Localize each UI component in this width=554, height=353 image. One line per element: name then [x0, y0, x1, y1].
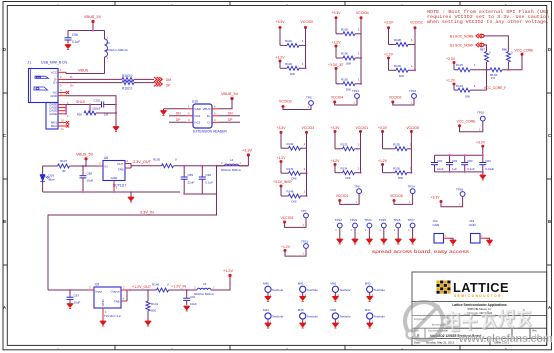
svg-text:Output: Output: [110, 289, 119, 293]
svg-text:VCCIO3: VCCIO3: [281, 216, 294, 220]
svg-text:R133: R133: [341, 142, 348, 146]
title block document row: [414, 330, 540, 338]
svg-text:DP: DP: [228, 118, 232, 122]
svg-text:Testhole: Testhole: [272, 288, 284, 292]
svg-text:TP6: TP6: [306, 96, 312, 100]
ground (JX3): [487, 240, 493, 245]
connector JX3 GND post: [469, 219, 490, 243]
svg-text:DNI: DNI: [465, 95, 470, 99]
svg-text:DM: DM: [166, 78, 171, 82]
svg-text:Testhole: Testhole: [374, 288, 386, 292]
svg-text:D: D: [548, 47, 551, 52]
test point TP14 (VCCIO5): [390, 185, 415, 205]
svg-text:A: A: [3, 305, 6, 310]
svg-text:GND: GND: [195, 107, 201, 111]
svg-text:DN: DN: [176, 111, 181, 115]
pin 3 U5 input stub: [88, 286, 94, 291]
connector J1 USB_MINI_B: [28, 61, 68, 103]
resistor R162 0: [122, 81, 134, 91]
svg-text:22uF: 22uF: [188, 181, 195, 185]
wire R137 to U8: [70, 165, 99, 167]
inductor L5 600ohm 500mA: [194, 282, 215, 296]
wire +1.2V_IN rail: [169, 285, 198, 292]
svg-text:+1.2V: +1.2V: [331, 159, 341, 163]
svg-text:M44: M44: [263, 308, 269, 312]
power flag +3.3V (SPI): [446, 57, 456, 64]
svg-text:Testhole: Testhole: [374, 315, 386, 319]
ground (JX2): [450, 240, 456, 245]
resistor R124 1: [456, 84, 476, 92]
title block company text: [452, 303, 506, 315]
off-page connector SOC_NORB: [450, 34, 484, 39]
svg-text:0.1uF: 0.1uF: [206, 181, 214, 185]
svg-text:VCCIO3: VCCIO3: [302, 126, 315, 130]
svg-text:0.1uF: 0.1uF: [467, 167, 475, 171]
resistor R137 4K: [58, 159, 70, 173]
svg-text:+3.3V: +3.3V: [378, 126, 388, 130]
svg-text:TP23: TP23: [350, 218, 358, 222]
pin 5 stub U10: [212, 111, 219, 116]
svg-text:VCCIO5: VCCIO5: [390, 194, 403, 198]
ground (U8 rail): [128, 197, 134, 202]
svg-text:R102: R102: [285, 39, 292, 43]
title block date row: [414, 341, 510, 345]
svg-text:Testhole: Testhole: [272, 315, 284, 319]
svg-text:TP50: TP50: [456, 188, 464, 192]
wire VBUS net: [66, 69, 105, 74]
wire cap return rail: [183, 193, 216, 195]
wire GND net of J1: [66, 96, 116, 105]
svg-text:U5: U5: [95, 283, 99, 287]
capacitor C83 0.1uF: [461, 155, 475, 172]
title block frame: [412, 272, 547, 346]
node junction VBUS_5V: [92, 29, 94, 31]
svg-text:DNI: DNI: [290, 72, 295, 76]
svg-text:TP11: TP11: [352, 89, 359, 93]
svg-text:R148: R148: [287, 190, 294, 194]
wire OUT-TAB tie: [130, 164, 132, 169]
wire SHLD net: [66, 100, 101, 105]
svg-text:R134: R134: [341, 166, 348, 170]
pin 2 D- stub: [58, 75, 66, 79]
jumper group C1: [384, 21, 423, 78]
svg-text:600ohm 500mA: 600ohm 500mA: [194, 292, 214, 296]
svg-text:+3.3V: +3.3V: [276, 20, 286, 24]
pin 4 U8 TAB stub: [125, 167, 131, 169]
svg-text:+3.3V: +3.3V: [242, 149, 252, 153]
svg-text:TP24: TP24: [364, 218, 372, 222]
svg-text:www.elecfans.com: www.elecfans.com: [458, 333, 553, 345]
svg-text:L5: L5: [203, 282, 207, 286]
svg-text:R87: R87: [480, 47, 486, 51]
svg-text:220pF: 220pF: [92, 107, 100, 111]
svg-text:600ohm 500mA: 600ohm 500mA: [107, 48, 128, 52]
wire U10 vbus: [219, 99, 232, 109]
pin 2 U8 OUT stub: [125, 159, 131, 164]
wire +1.2V to R124: [454, 84, 458, 90]
watermark elecfans logo circle: [405, 302, 450, 340]
ground (C87): [67, 304, 73, 309]
test point TP24 (gnd): [364, 218, 372, 244]
wire R30 to gnd column: [96, 112, 116, 114]
test point TP50 (+3.3V): [431, 188, 466, 207]
jumper group A2: [273, 126, 314, 204]
svg-text:DNI: DNI: [346, 87, 351, 91]
svg-text:OUT: OUT: [117, 162, 124, 166]
svg-text:DNI: DNI: [292, 177, 297, 181]
wire gnd drop (U8 rail): [130, 192, 132, 197]
wire case bus: [65, 105, 67, 114]
wire VBUS_5V stem to rail: [85, 159, 87, 166]
capacitor C91 10uF: [183, 290, 197, 306]
svg-text:+3.3V: +3.3V: [332, 11, 342, 15]
svg-text:D-: D-: [207, 120, 210, 124]
resistor R85 80.6K: [490, 68, 502, 80]
ground (U10): [161, 111, 167, 116]
svg-text:+3.3V_INSP: +3.3V_INSP: [273, 180, 292, 184]
svg-text:Testhole: Testhole: [307, 288, 319, 292]
svg-text:C88: C88: [87, 172, 93, 176]
testhole M42: [330, 282, 351, 302]
svg-text:VBUS_5V: VBUS_5V: [76, 153, 94, 157]
svg-text:R163 0: R163 0: [122, 74, 133, 78]
svg-text:+3.3V_JIT: +3.3V_JIT: [328, 63, 344, 67]
svg-text:VCCIO5: VCCIO5: [406, 126, 419, 130]
wire DP right: [219, 118, 240, 123]
svg-text:M41: M41: [298, 282, 304, 286]
svg-text:R136: R136: [393, 166, 400, 170]
test point TP16 (VCCIO2): [389, 89, 417, 105]
svg-text:C96: C96: [72, 33, 78, 37]
pin 4 stub U10: [212, 118, 219, 123]
svg-text:TAB: TAB: [114, 300, 120, 304]
regulator U5 TLV1117-1.2: [94, 283, 121, 319]
svg-text:+1.2V: +1.2V: [276, 56, 286, 60]
svg-text:600ohm 500mA: 600ohm 500mA: [221, 168, 241, 172]
wire 3.3V_OUT: [131, 160, 162, 166]
svg-text:+3.3V: +3.3V: [331, 126, 341, 130]
svg-text:C82: C82: [452, 159, 458, 163]
svg-text:D: D: [3, 47, 6, 52]
svg-text:D+: D+: [53, 81, 57, 85]
svg-text:VCC: VCC: [51, 70, 58, 74]
svg-text:M47: M47: [365, 308, 371, 312]
svg-text:TAB: TAB: [118, 168, 124, 172]
svg-text:R141: R141: [151, 302, 159, 306]
svg-text:VCCIO2: VCCIO2: [410, 21, 423, 25]
svg-text:B: B: [3, 219, 6, 224]
svg-text:R108: R108: [394, 38, 401, 42]
off-page connector DP: [154, 82, 170, 88]
testhole M46: [330, 308, 351, 328]
wire +3.3V to R125: [454, 63, 458, 70]
svg-text:0.1uF: 0.1uF: [72, 40, 80, 44]
svg-text:spread across board, easy acce: spread across board, easy access: [372, 249, 470, 254]
power flag VBUS_5V (U10): [221, 92, 239, 100]
svg-text:M43: M43: [365, 282, 371, 286]
resistor R163 0: [122, 74, 134, 81]
svg-text:TP27: TP27: [408, 218, 416, 222]
svg-text:R30: R30: [77, 113, 83, 117]
capacitor C88 10uF: [80, 166, 94, 192]
svg-text:GND: GND: [50, 94, 58, 98]
wire D- net: [66, 75, 122, 79]
svg-text:R105: R105: [341, 27, 348, 31]
svg-text:GND: GND: [111, 176, 119, 180]
test point TP12 (+1.2V): [281, 240, 309, 257]
capacitor C96 0.1uF: [65, 31, 81, 45]
power flag VBUS_5V (U8 input): [76, 153, 94, 161]
svg-text:VCCIO4: VCCIO4: [331, 96, 344, 100]
svg-text:DNI: DNI: [399, 74, 404, 78]
svg-text:VBUS: VBUS: [78, 69, 89, 73]
connector U10 EXTENSION HEADER: [192, 100, 227, 134]
wire TAB tie U5: [126, 290, 128, 301]
test point TP25 (gnd): [379, 218, 387, 244]
logo Lattice checker icon: [437, 281, 451, 294]
power flag VBUS_5V (top): [84, 15, 102, 23]
capacitor C89 22uF: [181, 166, 195, 194]
svg-text:R109: R109: [394, 64, 401, 68]
testhole M41: [298, 282, 319, 302]
svg-text:+1.2V: +1.2V: [277, 156, 287, 160]
svg-text:VCCIO1: VCCIO1: [336, 194, 349, 198]
svg-text:DN: DN: [228, 111, 233, 115]
svg-text:C151: C151: [94, 99, 101, 103]
test point TP22 (gnd): [335, 218, 343, 244]
pin 1 VCC stub: [58, 68, 66, 72]
svg-text:U10: U10: [192, 100, 198, 104]
svg-text:U8: U8: [104, 156, 108, 160]
svg-text:C90: C90: [206, 173, 212, 177]
svg-text:USB_MINI_B CN: USB_MINI_B CN: [41, 61, 68, 65]
testhole M43: [365, 282, 386, 302]
wire L4 leads: [217, 165, 249, 167]
svg-text:D+: D+: [207, 114, 211, 118]
pin 2 stub U10: [186, 111, 193, 116]
wire bottom rail (U8): [43, 191, 180, 193]
power flag VCC_CORE: [515, 48, 535, 56]
wire VBUS_5V stem: [92, 22, 94, 31]
capacitor C82 1uF: [446, 155, 458, 172]
test point TP26 (gnd): [393, 218, 401, 244]
svg-text:C81: C81: [437, 159, 443, 163]
pin 6 stub U10: [212, 104, 219, 109]
wire U10 gnd: [164, 109, 187, 111]
wire output rail: [174, 165, 249, 167]
pin 4 NC no-connect: [58, 88, 69, 94]
off-page connector SOC_NORF: [450, 43, 484, 48]
svg-text:Testhole: Testhole: [339, 315, 351, 319]
svg-text:SEMICONDUCTOR.: SEMICONDUCTOR.: [454, 294, 504, 298]
svg-text:1%: 1%: [491, 76, 496, 80]
svg-text:R103: R103: [285, 62, 292, 66]
svg-text:+3.3V: +3.3V: [446, 57, 456, 61]
svg-text:A: A: [548, 305, 551, 310]
LED D16 Blue: [40, 166, 55, 192]
svg-text:C84: C84: [485, 159, 491, 163]
wire +1.2V_OUT: [129, 285, 157, 291]
svg-text:TP25: TP25: [379, 218, 387, 222]
svg-text:TP9: TP9: [354, 185, 360, 189]
resistor R87 0: [480, 47, 491, 62]
pin 2 U5 output stub: [121, 286, 130, 291]
wire R125 to rail: [470, 69, 490, 71]
svg-text:CASE: CASE: [49, 112, 57, 116]
test point TP11 (VCCIO4): [331, 89, 360, 105]
connector J1 shield case block: [46, 103, 58, 130]
svg-text:Blue: Blue: [49, 178, 55, 182]
svg-text:C: C: [3, 133, 6, 138]
test point TP23 (gnd): [350, 218, 358, 244]
ground (C96): [65, 45, 71, 50]
svg-text:DP: DP: [166, 84, 170, 88]
svg-text:L3: L3: [107, 41, 111, 45]
svg-text:VBUS: VBUS: [203, 107, 211, 111]
svg-text:TP10: TP10: [477, 111, 485, 115]
svg-text:R124: R124: [456, 84, 463, 88]
svg-text:Input: Input: [96, 289, 103, 293]
svg-text:M40: M40: [263, 282, 269, 286]
svg-text:TLV1117-1.2: TLV1117-1.2: [104, 314, 121, 318]
svg-text:NC3: NC3: [195, 120, 201, 124]
svg-text:3.3V_OUT: 3.3V_OUT: [133, 160, 152, 164]
svg-text:10uF: 10uF: [437, 167, 444, 171]
svg-text:when setting VCCIO2 to any oth: when setting VCCIO2 to any other voltage…: [427, 19, 549, 25]
svg-text:R106: R106: [341, 52, 348, 56]
svg-text:500: 500: [151, 309, 156, 313]
test point TP27 (gnd): [408, 218, 416, 244]
svg-text:VCCIO1: VCCIO1: [356, 126, 369, 130]
wire 3.3V_IN feed: [48, 166, 217, 290]
power flag +3.3V (L4): [242, 149, 252, 166]
inductor L3 600ohm 500mA: [105, 31, 128, 74]
svg-text:B: B: [548, 219, 551, 224]
wire top rail: [68, 30, 105, 32]
capacitor C151 220pF: [92, 99, 103, 111]
svg-text:+1.2V: +1.2V: [281, 245, 291, 249]
svg-text:+3.3V: +3.3V: [476, 140, 486, 144]
svg-text:+3.3V: +3.3V: [277, 126, 287, 130]
svg-text:requires VCCIO2 set to 3.3v.: requires VCCIO2 set to 3.3v. Use caution: [427, 14, 549, 20]
wire VCC corner: [65, 72, 67, 73]
svg-text:M45: M45: [298, 308, 304, 312]
svg-text:DP: DP: [176, 118, 180, 122]
svg-text:R86: R86: [502, 47, 508, 51]
resistor R86 0: [502, 47, 513, 62]
wire R87 bottom: [486, 62, 488, 70]
svg-text:TP26: TP26: [393, 218, 401, 222]
resistor R125 1: [456, 63, 476, 72]
svg-text:R131: R131: [287, 167, 294, 171]
wire caps top rail: [435, 154, 483, 156]
svg-text:VCCIO2: VCCIO2: [389, 96, 402, 100]
svg-text:+1.2V: +1.2V: [384, 53, 394, 57]
pin MH2 no-connect: [58, 124, 69, 130]
ground (C91): [184, 306, 190, 311]
svg-text:C: C: [548, 133, 551, 138]
svg-text:+1.2V: +1.2V: [446, 78, 456, 82]
test point TP10 (VCC_CORE): [457, 111, 486, 132]
capacitor C90 0.1uF: [199, 166, 214, 194]
node SPI rail junctions: [485, 69, 509, 71]
svg-text:TP16: TP16: [409, 89, 417, 93]
svg-text:TP12: TP12: [301, 240, 309, 244]
testhole M45: [298, 308, 319, 328]
wire shield gnd drop: [115, 105, 117, 127]
wire input rail left: [43, 165, 58, 167]
pin 1 U8 GND stub: [114, 181, 118, 193]
wire NORF net: [484, 45, 487, 52]
svg-text:10uF: 10uF: [190, 302, 197, 306]
wire VCC_CORE_F: [470, 70, 506, 90]
wire DP left: [169, 118, 186, 123]
svg-text:0.01uF: 0.01uF: [485, 167, 494, 171]
capacitor C84 0.01uF: [479, 155, 494, 172]
wire U5 input rail: [48, 289, 94, 291]
off-page connector DM: [154, 77, 171, 82]
ground (J1 shield): [113, 127, 119, 132]
svg-text:+1.2V: +1.2V: [332, 41, 342, 45]
wire cap to gnd column: [104, 104, 116, 106]
pin 4 U5 TAB stub: [121, 297, 127, 302]
svg-text:VCC_CORE: VCC_CORE: [515, 48, 535, 52]
power flag +3.3V (caps): [476, 140, 486, 155]
resistor R140 0: [152, 283, 169, 293]
resistor R30 1M: [77, 105, 109, 117]
node SHLD junction: [89, 103, 91, 105]
wire D+ net: [66, 83, 122, 88]
svg-text:M42: M42: [330, 282, 336, 286]
svg-text:10uF: 10uF: [87, 179, 94, 183]
svg-text:IN: IN: [105, 164, 108, 168]
node input rail junctions: [82, 165, 87, 167]
test point TP7 (VCCIO3): [281, 209, 309, 227]
svg-text:R132: R132: [287, 142, 294, 146]
svg-text:3.3V_IN: 3.3V_IN: [140, 210, 154, 214]
svg-text:R162 0: R162 0: [122, 87, 133, 91]
svg-text:+1.2V_IN: +1.2V_IN: [171, 285, 186, 289]
watermark chinese characters: [446, 308, 532, 332]
svg-text:R150: R150: [341, 77, 348, 81]
svg-text:+1.2V: +1.2V: [223, 269, 233, 273]
svg-text:VCCIO0: VCCIO0: [301, 20, 314, 24]
svg-text:B1 SOC_NORB: B1 SOC_NORB: [450, 34, 474, 38]
svg-text:+1.2V: +1.2V: [378, 159, 388, 163]
svg-text:C89: C89: [188, 173, 194, 177]
capacitor C87 10uF: [67, 290, 81, 305]
svg-text:TP22: TP22: [335, 218, 343, 222]
power flag +1.2V (SPI): [446, 78, 456, 85]
note VCCIO2 boot text: [427, 9, 549, 25]
case pin stubs: [58, 101, 69, 118]
pin 3 stub U10: [186, 118, 193, 123]
wire to off-page DP: [134, 82, 154, 84]
svg-text:GND: GND: [433, 223, 441, 227]
svg-text:D+: D+: [70, 83, 74, 87]
svg-text:Testhole: Testhole: [307, 315, 319, 319]
svg-text:10uF: 10uF: [74, 301, 81, 305]
svg-text:VCCIO4: VCCIO4: [356, 11, 369, 15]
wire R86 bottom: [507, 62, 509, 70]
capacitor C81 10uF: [431, 155, 444, 172]
node case junctions: [65, 107, 67, 115]
ground (R141): [145, 321, 151, 326]
svg-text:DNI: DNI: [346, 62, 351, 66]
svg-text:D-: D-: [70, 75, 73, 79]
svg-text:Testhole: Testhole: [339, 288, 351, 292]
svg-text:NOTE : Boot from external SPI: NOTE : Boot from external SPI Flash (U6): [427, 9, 549, 15]
